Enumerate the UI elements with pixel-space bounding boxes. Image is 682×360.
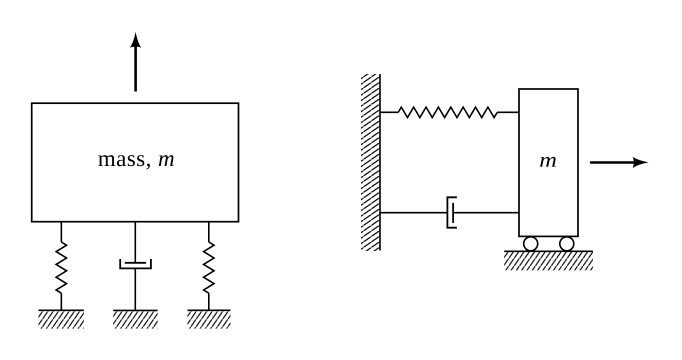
spring K2	[204, 242, 214, 293]
wire: rod from wall to spring K3	[380, 111, 398, 113]
label "mass, m"	[98, 155, 173, 169]
wire: rod from mass to spring K1	[60, 222, 62, 242]
mass block M2 (right system)	[519, 89, 578, 236]
label "m"	[540, 157, 556, 167]
wire: rod from mass to damper C1	[134, 222, 136, 263]
spring K3 (horizontal)	[398, 107, 497, 117]
wire: rod from spring K3 to mass M2	[497, 111, 519, 113]
ground G1 (under spring K1)	[39, 310, 84, 328]
wire: rod from spring K1 to ground	[60, 293, 62, 310]
mass block M1 (left system)	[32, 103, 239, 222]
force arrow F1 (upward)	[130, 32, 141, 92]
damper C1 (dashpot)	[120, 259, 151, 268]
wire: rod from spring K2 to ground	[208, 293, 210, 310]
wire: rod from damper C1 to ground	[134, 268, 136, 310]
wall (right system, hatched)	[361, 74, 380, 251]
wire: rod from mass to spring K2	[208, 222, 210, 242]
force arrow F2 (rightward)	[590, 157, 649, 168]
damper C2 (dashpot, horizontal)	[447, 197, 457, 227]
wheel W2	[560, 237, 574, 251]
ground G3 (under spring K2)	[188, 310, 231, 328]
ground G2 (under damper C1)	[113, 310, 157, 328]
wheel W1	[524, 237, 538, 251]
wire: rod from damper C2 to mass M2	[453, 212, 519, 214]
wire: rod from wall to damper C2	[380, 212, 447, 214]
ground G4 (under mass M2)	[504, 251, 593, 270]
spring K1	[56, 242, 66, 293]
